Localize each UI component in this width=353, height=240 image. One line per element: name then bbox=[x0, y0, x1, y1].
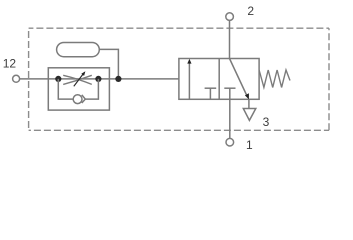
3/2 valve body bbox=[179, 59, 259, 100]
flow control valve enclosure box bbox=[48, 68, 109, 110]
exhaust triangle port 3 bbox=[243, 109, 256, 121]
svg-text:2: 2 bbox=[247, 4, 254, 18]
throttle restriction cross stroke 1 bbox=[63, 75, 92, 84]
wire: port 1 line (T2 stem down to port 1) bbox=[229, 88, 231, 138]
check valve seat bbox=[82, 95, 86, 103]
wire: pilot line 12 to valve bbox=[20, 78, 179, 80]
wire: check valve bypass left leg bbox=[58, 79, 73, 99]
node: junction dot right inside box bbox=[95, 76, 101, 82]
svg-text:12: 12 bbox=[3, 56, 17, 70]
throttle adjustment arrow bbox=[74, 74, 84, 87]
air reservoir (pill) bbox=[57, 43, 100, 57]
throttle restriction cross stroke 2 bbox=[63, 75, 92, 84]
node: junction dot left inside box bbox=[55, 76, 61, 82]
left position: flow path arrow up bbox=[188, 63, 190, 100]
wire: exhaust stub bbox=[248, 99, 250, 108]
port 12 circle bbox=[13, 75, 20, 82]
right position: blocked port T2 bbox=[224, 87, 235, 89]
node: junction dot at reservoir tee bbox=[115, 76, 121, 82]
wire: port 2 line bbox=[229, 20, 231, 58]
svg-text:3: 3 bbox=[263, 115, 270, 129]
dashed component enclosure bbox=[29, 28, 329, 130]
valve position divider bbox=[218, 59, 220, 100]
return spring bbox=[259, 70, 290, 87]
wire: check valve bypass right leg bbox=[85, 79, 98, 99]
left position: blocked port T1 bbox=[205, 87, 217, 89]
wire: reservoir connector bbox=[99, 49, 118, 79]
svg-text:1: 1 bbox=[246, 138, 253, 152]
check valve ball circle bbox=[73, 95, 82, 104]
port 1 circle bbox=[226, 138, 234, 146]
right position: diagonal flow path 2->3 bbox=[230, 59, 247, 96]
port 2 circle bbox=[226, 13, 234, 21]
